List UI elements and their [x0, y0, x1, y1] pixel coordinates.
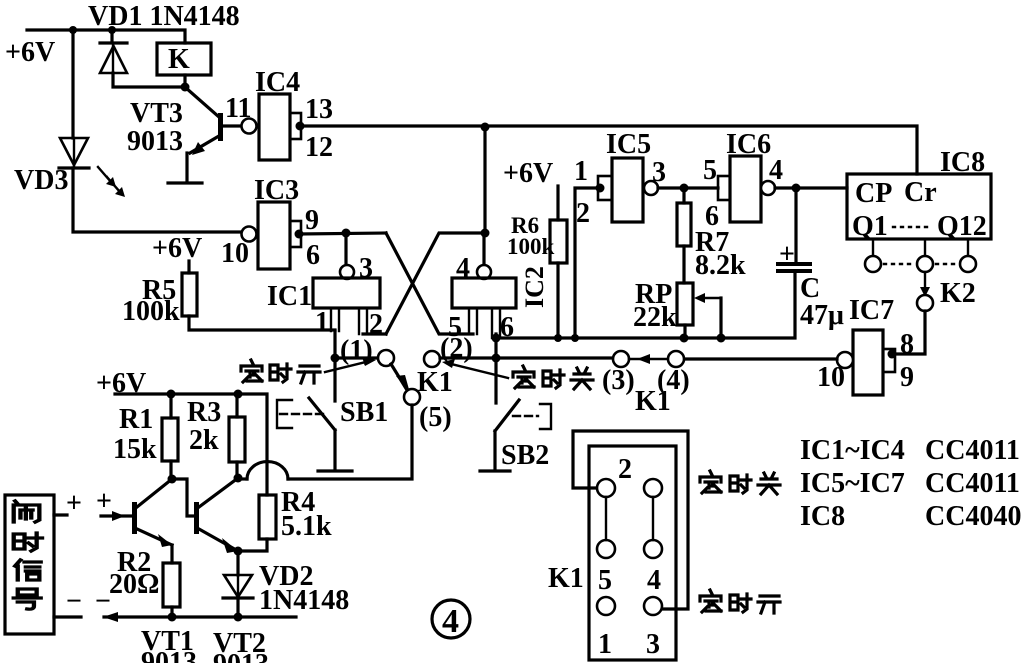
svg-text:1: 1 [574, 156, 588, 187]
svg-text:Q12: Q12 [937, 211, 987, 242]
svg-text:+6V: +6V [503, 158, 553, 189]
svg-text:47μ: 47μ [800, 300, 844, 331]
svg-text:IC7: IC7 [849, 295, 894, 326]
svg-text:+6V: +6V [5, 37, 55, 68]
svg-text:2: 2 [618, 454, 632, 485]
svg-text:10: 10 [817, 362, 845, 393]
svg-text:IC8: IC8 [800, 501, 845, 532]
svg-text:5.1k: 5.1k [281, 511, 332, 542]
svg-text:9013: 9013 [141, 647, 197, 663]
svg-text:Cr: Cr [904, 177, 937, 208]
svg-text:4: 4 [456, 253, 470, 284]
svg-text:3: 3 [646, 629, 660, 660]
svg-text:5: 5 [598, 565, 612, 596]
svg-text:13: 13 [305, 94, 333, 125]
svg-text:IC1~IC4: IC1~IC4 [800, 435, 905, 466]
svg-text:1: 1 [315, 307, 329, 338]
svg-text:11: 11 [225, 93, 251, 124]
svg-text:R3: R3 [187, 397, 221, 428]
svg-text:K1: K1 [548, 563, 584, 594]
svg-text:15k: 15k [113, 434, 157, 465]
svg-text:6: 6 [306, 240, 320, 271]
svg-text:(3): (3) [602, 365, 635, 396]
svg-text:CP: CP [855, 178, 892, 209]
svg-text:3: 3 [359, 253, 373, 284]
svg-text:100k: 100k [122, 296, 180, 327]
svg-text:5: 5 [703, 155, 717, 186]
svg-text:IC1: IC1 [267, 281, 312, 312]
svg-text:CC4011: CC4011 [925, 468, 1020, 499]
svg-text:8: 8 [900, 329, 914, 360]
svg-text:+6V: +6V [96, 368, 146, 399]
svg-text:IC2: IC2 [520, 266, 549, 308]
svg-text:CC4040: CC4040 [925, 501, 1021, 532]
svg-text:+6V: +6V [152, 233, 202, 264]
svg-text:(2): (2) [440, 333, 473, 364]
svg-text:1: 1 [598, 629, 612, 660]
svg-text:+: + [779, 239, 795, 270]
svg-text:VD3: VD3 [14, 165, 68, 196]
svg-text:K2: K2 [940, 278, 976, 309]
svg-text:2k: 2k [189, 425, 219, 456]
svg-text:VD1 1N4148: VD1 1N4148 [88, 1, 240, 32]
svg-text:−: − [66, 586, 82, 617]
svg-text:K1: K1 [417, 367, 453, 398]
svg-text:6: 6 [500, 312, 514, 343]
svg-text:2: 2 [576, 198, 590, 229]
svg-text:IC8: IC8 [940, 147, 985, 178]
svg-text:(5): (5) [419, 402, 452, 433]
svg-text:100k: 100k [507, 234, 555, 259]
svg-text:4: 4 [647, 565, 661, 596]
svg-text:9013: 9013 [213, 649, 269, 663]
svg-text:10: 10 [221, 238, 249, 269]
svg-text:K: K [168, 44, 190, 75]
svg-text:9: 9 [900, 362, 914, 393]
svg-text:IC4: IC4 [255, 67, 300, 98]
svg-text:+: + [96, 486, 112, 517]
svg-text:CC4011: CC4011 [925, 435, 1020, 466]
svg-text:12: 12 [305, 132, 333, 163]
svg-text:4: 4 [442, 603, 459, 640]
svg-text:IC5~IC7: IC5~IC7 [800, 468, 905, 499]
svg-text:4: 4 [769, 155, 783, 186]
svg-text:R1: R1 [119, 404, 153, 435]
svg-text:+: + [66, 488, 82, 519]
svg-text:9013: 9013 [127, 126, 183, 157]
svg-text:9: 9 [305, 205, 319, 236]
svg-text:8.2k: 8.2k [695, 250, 746, 281]
svg-text:22k: 22k [633, 302, 677, 333]
svg-text:Q1: Q1 [852, 211, 888, 242]
svg-text:3: 3 [652, 157, 666, 188]
svg-text:IC3: IC3 [254, 175, 299, 206]
svg-text:20Ω: 20Ω [109, 569, 159, 600]
svg-text:SB2: SB2 [501, 440, 549, 471]
svg-text:(1): (1) [340, 335, 373, 366]
svg-text:SB1: SB1 [340, 397, 388, 428]
svg-text:K1: K1 [635, 386, 671, 417]
svg-text:−: − [95, 586, 111, 617]
svg-text:VT3: VT3 [130, 98, 183, 129]
svg-text:1N4148: 1N4148 [259, 585, 349, 616]
svg-text:IC6: IC6 [726, 129, 771, 160]
svg-text:IC5: IC5 [606, 129, 651, 160]
